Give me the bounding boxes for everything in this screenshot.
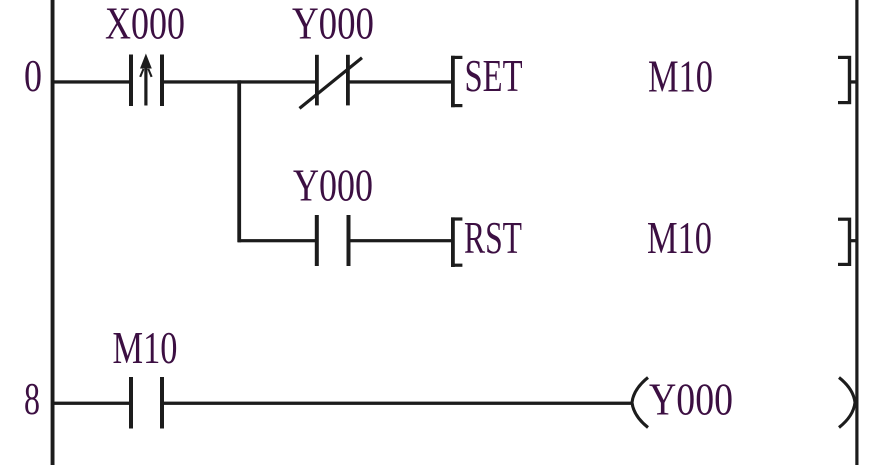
contact X000 rising-edge left bar	[129, 55, 133, 107]
contact Y000 NC slash	[299, 57, 364, 110]
contact Y000 NC right bar	[346, 55, 350, 106]
contact X000 arrow stem	[144, 62, 147, 106]
svg-text:RST: RST	[464, 212, 522, 263]
coil Y000 close paren	[839, 378, 855, 428]
RST instruction close bracket	[848, 218, 851, 266]
right power rail	[855, 0, 858, 465]
wire rung2 M10 contact to coil	[163, 402, 633, 405]
svg-text:Y000: Y000	[292, 0, 374, 49]
branch junction node	[237, 80, 241, 242]
wire stub SET bracket to right rail	[851, 80, 856, 83]
svg-text:0: 0	[24, 50, 42, 101]
contact X000 arrow left flare	[139, 69, 144, 78]
contact M10 NO left bar	[129, 377, 133, 429]
SET instruction open bracket	[451, 56, 455, 107]
contact X000 rising-edge right bar	[160, 55, 164, 107]
contact X000 arrowhead	[140, 54, 152, 69]
wire stub RST bracket to right rail	[851, 239, 856, 242]
left power rail	[51, 0, 55, 465]
svg-text:M10: M10	[647, 212, 712, 263]
coil Y000 open paren	[632, 378, 648, 428]
svg-text:SET: SET	[465, 50, 523, 101]
SET instruction close bracket	[848, 56, 851, 104]
RST instruction open bracket	[451, 217, 455, 267]
svg-text:M10: M10	[648, 51, 713, 102]
contact Y000 NO right bar	[347, 215, 351, 266]
contact M10 NO right bar	[160, 377, 164, 429]
wire rung0 Y000 to SET bracket	[349, 80, 453, 83]
wire rung0 left-rail to X000 contact	[52, 80, 130, 83]
wire rung0 X000 to Y000 NC contact	[163, 80, 316, 83]
wire rung1 Y000 to RST bracket	[349, 239, 453, 242]
contact Y000 NC left bar	[315, 55, 319, 106]
svg-text:M10: M10	[113, 322, 178, 373]
contact Y000 NO left bar	[315, 215, 319, 266]
wire branch rung1 junction to Y000 NO contact	[238, 239, 316, 242]
contact X000 arrow right flare	[147, 69, 152, 78]
svg-text:Y000: Y000	[293, 160, 373, 211]
wire rung2 left-rail to M10 contact	[52, 402, 130, 405]
svg-text:Y000: Y000	[649, 374, 733, 425]
svg-text:X000: X000	[105, 0, 185, 49]
svg-text:8: 8	[24, 373, 40, 424]
